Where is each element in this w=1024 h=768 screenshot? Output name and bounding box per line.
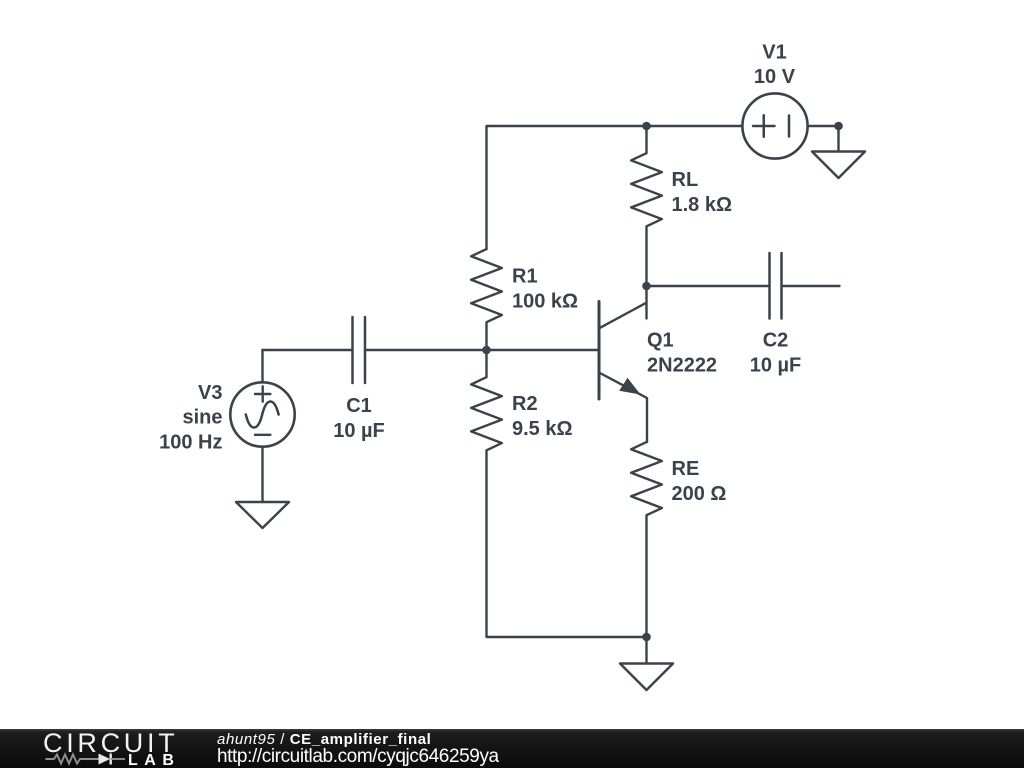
svg-text:100 kΩ: 100 kΩ [512,290,578,312]
V3 sine wave [246,402,279,428]
svg-text:2N2222: 2N2222 [647,355,717,377]
wire C1 to Q1 base [365,349,599,351]
V3 stem top [261,350,263,382]
footer credit line 2 [217,747,499,766]
node bottom rail [642,633,651,642]
svg-text:1.8 kΩ: 1.8 kΩ [672,194,733,216]
resistor R2 [471,350,646,637]
Q1 collector lead [645,286,647,319]
svg-text:Q1: Q1 [647,330,674,352]
node collector [642,282,651,291]
svg-text:200 Ω: 200 Ω [672,483,727,505]
svg-text:10 µF: 10 µF [750,355,802,377]
resistor RL [631,126,662,286]
voltage source V3 circle [230,382,294,446]
resistor RE [631,442,662,637]
wire top rail from R1 top to V1 left [487,126,743,249]
footer credit line 1 [217,732,431,747]
svg-text:RE: RE [672,458,700,480]
Q1 emitter arrow [619,378,640,395]
node top rail [642,122,651,131]
logo resistor zigzag [46,755,99,764]
V3 minus sign [255,434,270,436]
svg-text:9.5 kΩ: 9.5 kΩ [512,418,573,440]
wire base net: V3 top corner to C1 [263,349,353,351]
resistor R1 [471,249,502,350]
Q1 emitter diagonal and lead [599,373,647,443]
svg-text:10 V: 10 V [754,66,796,88]
svg-text:V1: V1 [762,41,786,63]
node V1 ground [834,122,843,131]
capacitor C1 [351,317,354,383]
svg-text:100 Hz: 100 Hz [159,432,222,454]
footer bar [0,729,1024,768]
svg-text:C2: C2 [763,330,789,352]
V1 minus bar [788,116,791,137]
V1 plus sign [753,115,775,137]
CircuitLab logo LAB [128,753,180,768]
ground at V3 [236,502,289,528]
svg-text:10 µF: 10 µF [333,420,385,442]
svg-text:R1: R1 [512,265,538,287]
svg-text:RL: RL [672,169,699,191]
logo diode [99,754,111,765]
svg-text:R2: R2 [512,393,538,415]
Q1 collector diagonal [600,303,646,328]
wire C2 output [782,285,840,287]
ground at V1 [837,126,839,152]
wire V1 right to ground node [808,125,839,127]
node base divider [482,346,491,355]
ground at emitter net [645,637,647,664]
transistor Q1 base bar [598,302,601,400]
V3 plus sign [255,386,270,401]
voltage source V1 circle [742,93,807,158]
svg-text:C1: C1 [346,395,372,417]
wire collector net to C2 [647,285,770,287]
V3 stem bottom [261,447,263,502]
svg-text:V3: V3 [198,382,222,404]
svg-text:sine: sine [182,407,222,429]
capacitor C2 [768,253,771,319]
CircuitLab logo symbol row [40,750,140,768]
CircuitLab logo CIRCUIT [43,730,203,757]
